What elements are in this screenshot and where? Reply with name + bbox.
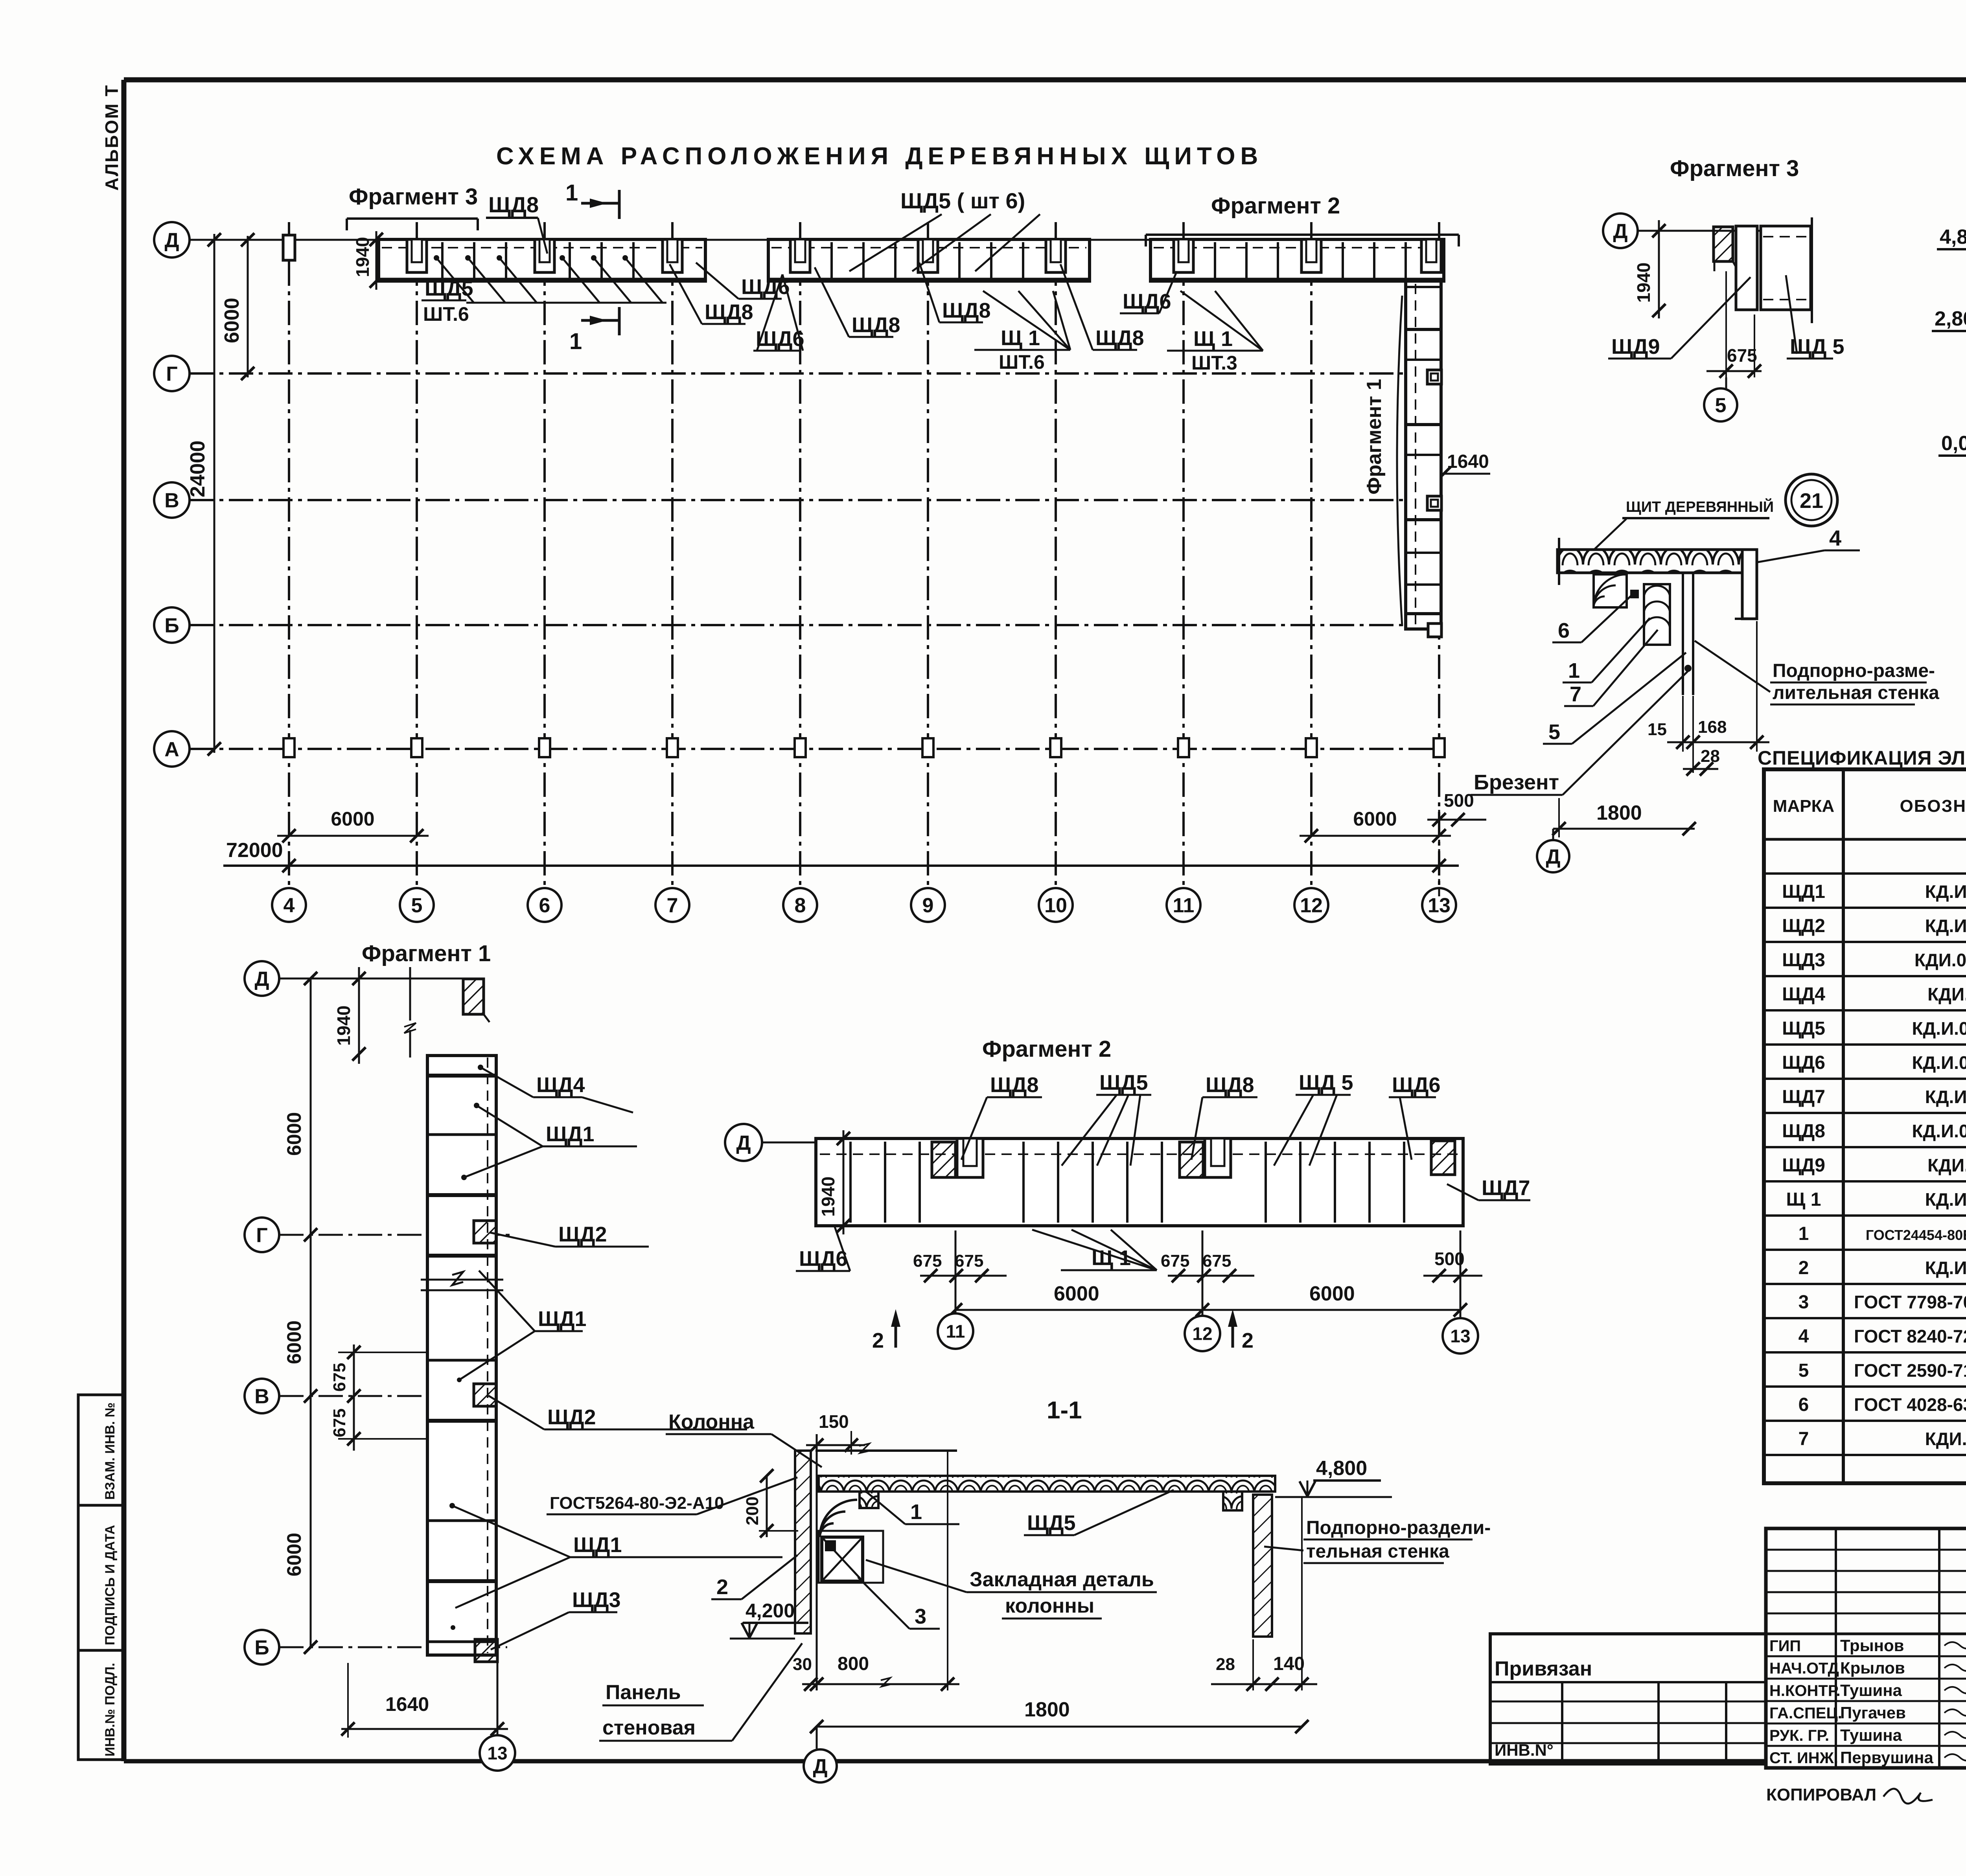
section 1-1 wood rings at column <box>820 1500 857 1537</box>
wood panel strip C (row Д cols 11-13) <box>1151 239 1444 281</box>
svg-text:6000: 6000 <box>331 808 374 830</box>
dim 1640 right vertical strip <box>1437 451 1490 480</box>
svg-text:Щ 1: Щ 1 <box>1092 1246 1131 1270</box>
fragment 1 dim 1640 <box>341 1663 508 1738</box>
svg-text:5: 5 <box>411 894 423 917</box>
svg-text:Фрагмент 1: Фрагмент 1 <box>362 941 491 966</box>
svg-text:1640: 1640 <box>385 1693 429 1715</box>
svg-text:ИНВ.N°: ИНВ.N° <box>1495 1741 1554 1759</box>
elevation 4,200 (1-1) <box>730 1600 808 1639</box>
section 1-1 bottom dims 30 800 <box>793 1451 959 1691</box>
svg-text:Тушина: Тушина <box>1840 1681 1902 1699</box>
svg-text:ЩД4: ЩД4 <box>1782 984 1825 1005</box>
fragment 2 label ЩД8 <box>961 1073 1042 1160</box>
svg-text:2: 2 <box>1798 1258 1809 1278</box>
svg-text:ЩД1: ЩД1 <box>1782 881 1825 902</box>
fragment 3 label ЩД9 <box>1608 277 1751 359</box>
detail title ЩИТ ДЕРЕВЯННЫЙ <box>1593 498 1774 550</box>
vertical plank with rings <box>1644 584 1670 645</box>
plan column axis 11 <box>1167 222 1200 922</box>
svg-text:Панель: Панель <box>606 1681 681 1704</box>
dim 1800 detail <box>1552 798 1696 837</box>
svg-text:ЩД8: ЩД8 <box>990 1073 1039 1097</box>
svg-text:ЩД2: ЩД2 <box>558 1223 607 1246</box>
svg-text:ЩД3: ЩД3 <box>1782 950 1825 971</box>
svg-text:ОБОЗНАЧЕНИЕ: ОБОЗНАЧЕНИЕ <box>1900 796 1966 816</box>
svg-text:Д: Д <box>813 1755 827 1778</box>
svg-text:6000: 6000 <box>283 1112 305 1156</box>
svg-text:6000: 6000 <box>283 1533 305 1576</box>
svg-text:4: 4 <box>1798 1326 1809 1347</box>
fragment 1 break mark <box>421 1272 503 1290</box>
fragment 2 column 13 symbol <box>1431 1141 1455 1175</box>
svg-text:6000: 6000 <box>221 298 243 343</box>
svg-text:ЩД5: ЩД5 <box>425 277 473 300</box>
svg-text:КД.И.08.00: КД.И.08.00 <box>1925 1258 1966 1278</box>
svg-text:тельная стенка: тельная стенка <box>1306 1541 1449 1562</box>
svg-text:6: 6 <box>1558 619 1570 642</box>
svg-text:11: 11 <box>946 1321 965 1342</box>
svg-text:2: 2 <box>716 1575 728 1599</box>
section 1-1 embedded plate <box>819 1531 883 1583</box>
svg-text:1-1: 1-1 <box>1047 1397 1082 1424</box>
fragment 1 node square row В <box>474 1384 496 1406</box>
svg-text:1: 1 <box>910 1500 922 1524</box>
fragment 2 section mark 2 right <box>1228 1309 1254 1352</box>
section 1-1 dim 1800 <box>810 1698 1309 1733</box>
svg-text:КД.И.07.00: КД.И.07.00 <box>1925 1087 1966 1107</box>
plan row axis А <box>154 731 1437 767</box>
svg-text:Б: Б <box>254 1637 269 1659</box>
fragment 2 dim 6000 right <box>1202 1282 1467 1317</box>
svg-text:6: 6 <box>539 894 550 917</box>
svg-text:2,800: 2,800 <box>1935 307 1966 330</box>
fragment 1 axis Д <box>245 961 474 996</box>
svg-text:5: 5 <box>1798 1360 1809 1381</box>
fragment 2 dim 500 <box>1423 1249 1482 1282</box>
svg-text:А: А <box>164 738 179 761</box>
svg-text:НАЧ.ОТД: НАЧ.ОТД <box>1769 1660 1839 1677</box>
label 2 (1-1) <box>711 1555 797 1599</box>
fragment 1 node square row Г <box>474 1221 496 1243</box>
svg-text:ЩД6: ЩД6 <box>741 275 790 299</box>
svg-text:ЩД8: ЩД8 <box>852 313 900 337</box>
section 1-1 dim 200 <box>743 1469 798 1538</box>
fragment 3 hatched column <box>1714 227 1738 271</box>
svg-text:В: В <box>254 1385 269 1408</box>
fragment 2 label ЩД5 <box>1062 1071 1151 1166</box>
svg-text:КД.И.02.00: КД.И.02.00 <box>1925 1189 1966 1210</box>
svg-text:ЩД6: ЩД6 <box>1392 1073 1441 1097</box>
fragment 3 column bubble 5 <box>1704 377 1737 421</box>
label Брезент <box>1471 670 1689 795</box>
fragment 2 axis bubble 13 <box>1443 1230 1478 1354</box>
section 1-1 right wall <box>1253 1495 1272 1637</box>
elevation 2,800 <box>1932 307 1966 348</box>
svg-text:21: 21 <box>1800 489 1823 513</box>
svg-text:4: 4 <box>283 894 295 917</box>
svg-text:675: 675 <box>1727 345 1757 366</box>
label 7 <box>1564 630 1658 706</box>
label ЩД8 right of strip A <box>670 264 753 324</box>
svg-text:КДИ.05.00: КДИ.05.00 <box>1927 1155 1966 1175</box>
svg-text:6000: 6000 <box>1054 1282 1099 1305</box>
svg-text:Фрагмент 3: Фрагмент 3 <box>1670 156 1799 181</box>
section mark 1 (bottom) <box>569 307 619 354</box>
svg-text:ГА.СПЕЦ.: ГА.СПЕЦ. <box>1769 1705 1842 1722</box>
fragment 1 label ЩД4 <box>478 1065 633 1113</box>
svg-text:ЩД5: ЩД5 <box>1027 1511 1076 1535</box>
title block outer <box>1766 1528 1966 1768</box>
label 1 <box>1563 618 1650 682</box>
fragment 1 dim 675 675 <box>330 1344 429 1451</box>
svg-text:28: 28 <box>1701 747 1720 766</box>
label Колонна <box>666 1411 822 1467</box>
svg-text:1: 1 <box>1568 659 1580 682</box>
svg-text:КДИ.05.00-01: КДИ.05.00-01 <box>1914 950 1966 970</box>
section 1-1 beam ЩД5 logs <box>819 1476 1275 1492</box>
elevation 0,000 <box>1938 432 1966 472</box>
svg-text:Д: Д <box>164 229 179 252</box>
channel bracket item 4 <box>1735 526 1860 619</box>
plan row axis Г <box>154 356 1439 391</box>
svg-text:12: 12 <box>1300 894 1323 917</box>
label 1 (1-1) <box>865 1491 959 1524</box>
svg-text:13: 13 <box>1450 1326 1470 1346</box>
label Щ1 шт.3 under strip C <box>1167 291 1263 374</box>
svg-text:Д: Д <box>736 1132 751 1155</box>
spec table grid <box>1764 769 1966 1483</box>
fragment 2 strip <box>816 1138 1463 1226</box>
svg-text:ШТ.6: ШТ.6 <box>999 351 1045 373</box>
svg-text:МАРКА: МАРКА <box>1773 796 1834 816</box>
fragment 1 axis В <box>245 1379 464 1413</box>
svg-text:СПЕЦИФИКАЦИЯ ЭЛЕМЕНТОВ К СХЕ: СПЕЦИФИКАЦИЯ ЭЛЕМЕНТОВ К СХЕМЕ РАСПОЛОЖЕ… <box>1758 747 1966 769</box>
svg-text:Б: Б <box>164 614 179 637</box>
svg-text:Первушина: Первушина <box>1840 1748 1934 1767</box>
label 6 <box>1552 594 1633 642</box>
fragment 2 section mark 2 left <box>872 1309 900 1352</box>
svg-text:ГОСТ 4028-63*: ГОСТ 4028-63* <box>1854 1394 1966 1415</box>
fragment 1 dim 1940 <box>333 967 366 1064</box>
svg-text:13: 13 <box>1428 894 1451 917</box>
title block signature rows <box>1766 1634 1966 1768</box>
label ЩД8 top <box>486 192 547 254</box>
svg-text:Фрагмент 3: Фрагмент 3 <box>349 184 478 210</box>
svg-text:Привязан: Привязан <box>1495 1657 1592 1680</box>
dim 6000 left vertical <box>221 233 254 380</box>
svg-text:28: 28 <box>1216 1655 1235 1674</box>
fragment 1 node square row Б <box>475 1639 497 1662</box>
plan column axis 6 <box>528 222 561 922</box>
dim 150 (1-1) <box>806 1411 865 1455</box>
plan column axis 4 <box>272 222 306 922</box>
svg-text:5: 5 <box>1715 394 1727 417</box>
svg-text:9: 9 <box>922 894 934 917</box>
label 3 (1-1) <box>858 1577 940 1629</box>
svg-text:675: 675 <box>955 1251 983 1271</box>
fragment 1 label ЩД2 upper <box>490 1223 649 1247</box>
svg-text:1640: 1640 <box>1447 451 1489 472</box>
svg-text:ГОСТ 8240-72*: ГОСТ 8240-72* <box>1854 1326 1966 1346</box>
fragment 2 dims 675 675 right <box>1161 1251 1254 1282</box>
label Фрагмент 3 with bracket <box>347 184 478 230</box>
svg-text:ЩД8: ЩД8 <box>705 300 753 324</box>
svg-text:6000: 6000 <box>1309 1282 1355 1305</box>
fragment 2 label ЩД6 left <box>796 1226 850 1271</box>
label ЩД5 (1-1) <box>1024 1490 1174 1535</box>
svg-text:2: 2 <box>872 1329 884 1352</box>
plan column axis 8 <box>783 222 817 922</box>
dim 72000 bottom overall <box>223 839 1459 872</box>
fragment 3 dim 675 <box>1706 271 1762 393</box>
svg-text:1800: 1800 <box>1596 802 1642 824</box>
fragment 1 axis Б <box>245 1630 507 1664</box>
section 1-1 wall cap log <box>1223 1492 1242 1510</box>
svg-text:13: 13 <box>487 1743 507 1764</box>
fragment 2 column 12 symbol <box>1180 1138 1231 1177</box>
fragment 1 label ГОСТ weld <box>547 1477 797 1514</box>
dim 500 right <box>1427 790 1486 896</box>
svg-text:КДИ. 09.00: КДИ. 09.00 <box>1925 1429 1966 1449</box>
svg-text:ЩД2: ЩД2 <box>547 1405 596 1429</box>
label Щ1 шт.6 under strip B <box>974 291 1070 373</box>
fragment 2 column 11 symbol <box>932 1138 983 1177</box>
svg-text:4,800: 4,800 <box>1316 1457 1367 1480</box>
svg-text:500: 500 <box>1444 790 1474 811</box>
svg-text:КД.И.04.00: КД.И.04.00 <box>1925 916 1966 936</box>
svg-text:ЩД7: ЩД7 <box>1482 1176 1530 1200</box>
svg-text:ЩД5 ( шт 6): ЩД5 ( шт 6) <box>900 188 1025 213</box>
fragment 2 label ЩД6 <box>1389 1073 1441 1160</box>
svg-text:ЩД8: ЩД8 <box>942 299 991 322</box>
wood panel strip A (row Д cols 5-7) <box>379 239 705 281</box>
fragment 3 label ЩД5 <box>1786 275 1845 359</box>
log beam (щит деревянный) <box>1557 538 1742 585</box>
svg-text:2: 2 <box>1242 1329 1254 1352</box>
svg-text:675: 675 <box>1161 1251 1189 1271</box>
section 1-1 dims 28 140 <box>1211 1498 1317 1691</box>
svg-text:1800: 1800 <box>1024 1698 1070 1721</box>
svg-text:ЩД8: ЩД8 <box>1782 1121 1825 1142</box>
fragment 1 label ЩД3 <box>451 1588 621 1650</box>
svg-text:Крылов: Крылов <box>1840 1659 1905 1677</box>
label 5 <box>1543 653 1686 744</box>
plan row axis Б <box>154 607 1439 643</box>
label ЩД5 шт.6 under strip A with leaders <box>422 255 666 325</box>
svg-text:Пугачев: Пугачев <box>1840 1703 1906 1722</box>
svg-text:ГОСТ 7798-70*: ГОСТ 7798-70* <box>1854 1292 1966 1312</box>
svg-text:ЩД 5: ЩД 5 <box>1790 335 1845 359</box>
svg-text:Закладная деталь: Закладная деталь <box>970 1568 1154 1591</box>
svg-text:Фрагмент 2: Фрагмент 2 <box>1211 193 1340 219</box>
svg-text:Д: Д <box>1613 220 1627 243</box>
right vertical panel strip (wall on line 13) <box>1406 281 1441 629</box>
svg-text:Щ 1: Щ 1 <box>1786 1189 1821 1210</box>
fragment 2 label ЩД8 second <box>1191 1073 1257 1160</box>
svg-text:Фрагмент 1: Фрагмент 1 <box>1363 379 1386 495</box>
fragment 2 axis bubble 11 <box>938 1230 973 1349</box>
fragment 2 axis Д <box>725 1124 818 1161</box>
svg-text:6000: 6000 <box>1353 808 1397 830</box>
svg-text:Подпорно-разме-: Подпорно-разме- <box>1773 660 1935 681</box>
node square row Г on wall 13 <box>1427 370 1441 384</box>
svg-text:4,800: 4,800 <box>1940 226 1966 248</box>
plan column axis 9 <box>911 222 945 922</box>
svg-text:150: 150 <box>819 1411 849 1432</box>
fragment 2 axis bubble 12 <box>1185 1230 1220 1351</box>
fragment 3 right edge line <box>1811 217 1813 323</box>
svg-text:3: 3 <box>915 1605 926 1628</box>
bolt black square <box>1630 590 1639 598</box>
svg-text:5: 5 <box>1548 720 1560 744</box>
wood panel strip B (row Д cols 8-10) <box>768 239 1090 281</box>
fragment 3 dim 1940 <box>1633 220 1666 318</box>
fragment 3 axis Д <box>1603 213 1813 248</box>
svg-text:КД.И.03.00: КД.И.03.00 <box>1925 881 1966 902</box>
svg-text:ШТ.3: ШТ.3 <box>1191 352 1237 374</box>
svg-text:ГИП: ГИП <box>1769 1637 1801 1655</box>
svg-text:1940: 1940 <box>818 1177 838 1217</box>
fragment 1 dim 6000 Д-Г <box>283 972 317 1241</box>
left margin stamp boxes <box>78 1395 124 1760</box>
svg-text:КОПИРОВАЛ: КОПИРОВАЛ <box>1766 1785 1876 1804</box>
dim 1940 strip A vertical <box>352 231 383 290</box>
svg-text:В: В <box>164 489 179 512</box>
fragment 1 top hatched column <box>463 979 490 1022</box>
label Фрагмент 2 with bracket <box>1146 193 1459 246</box>
dim 6000 bottom cols 12-13 <box>1300 808 1451 842</box>
fragment 1 axis Г <box>245 1218 515 1252</box>
svg-text:7: 7 <box>1570 682 1581 706</box>
svg-text:6: 6 <box>1798 1394 1809 1415</box>
section mark 1 (top) <box>565 180 619 219</box>
label ЩД6 left of strip C <box>1120 271 1177 313</box>
node square bottom on wall 13 <box>1428 623 1441 637</box>
svg-text:СТ. ИНЖ.: СТ. ИНЖ. <box>1769 1749 1838 1767</box>
svg-text:КД.И.03.00-01: КД.И.03.00-01 <box>1912 1018 1966 1039</box>
svg-text:стеновая: стеновая <box>602 1716 696 1739</box>
label ЩД8 strip B right <box>1060 264 1144 350</box>
dims 15 168 28 <box>1648 621 1769 776</box>
label Подпорно-разделительная стенка (1-1) <box>1264 1517 1491 1563</box>
svg-text:Г: Г <box>256 1224 267 1247</box>
svg-text:4: 4 <box>1829 526 1841 550</box>
svg-text:Брезент: Брезент <box>1474 771 1559 794</box>
svg-text:ПОДПИСЬ И ДАТА: ПОДПИСЬ И ДАТА <box>103 1525 118 1645</box>
plan column axis 12 <box>1294 222 1328 922</box>
fragment 1 scope bracket <box>1397 296 1402 626</box>
svg-text:Н.КОНТР.: Н.КОНТР. <box>1769 1682 1841 1699</box>
svg-text:1: 1 <box>1798 1223 1809 1244</box>
fragment 2 label ЩД7 <box>1447 1176 1530 1200</box>
svg-text:Подпорно-раздели-: Подпорно-раздели- <box>1306 1517 1491 1538</box>
svg-text:Д: Д <box>1546 846 1560 868</box>
svg-text:24000: 24000 <box>186 440 209 497</box>
dim 24000 vertical <box>186 233 221 756</box>
svg-text:200: 200 <box>743 1497 762 1525</box>
svg-text:ЩД5: ЩД5 <box>1782 1018 1825 1039</box>
svg-text:1940: 1940 <box>333 1006 354 1046</box>
svg-text:1: 1 <box>565 180 578 206</box>
spec table header texts <box>1773 787 1966 825</box>
plan column stubs row А <box>283 738 1445 757</box>
plan column axis 7 <box>655 222 689 922</box>
svg-text:8: 8 <box>795 894 806 917</box>
svg-text:675: 675 <box>1202 1251 1231 1271</box>
label ЩД6 flag left of strip B <box>753 274 804 351</box>
label ЩД5 (шт 6) <box>849 188 1040 271</box>
svg-text:15: 15 <box>1648 720 1667 739</box>
section 1-1 top break line <box>815 1444 957 1453</box>
svg-text:КД.И.06.00-01: КД.И.06.00-01 <box>1912 1052 1966 1073</box>
svg-text:КДИ.06.00: КДИ.06.00 <box>1927 984 1966 1004</box>
fragment 1 label ЩД1 lower <box>449 1503 782 1608</box>
svg-text:1940: 1940 <box>352 237 373 277</box>
svg-text:ЩД8: ЩД8 <box>488 192 539 217</box>
svg-text:1940: 1940 <box>1633 263 1654 303</box>
svg-text:Трынов: Трынов <box>1840 1636 1904 1655</box>
title block mini table (изм/лист) <box>1766 1528 1966 1768</box>
corner column at col 13 <box>1421 239 1441 272</box>
svg-text:ЩД9: ЩД9 <box>1782 1155 1825 1176</box>
fragment 2 label Щ1 <box>1032 1230 1157 1270</box>
svg-text:ЩД8: ЩД8 <box>1206 1073 1254 1097</box>
svg-text:140: 140 <box>1273 1653 1305 1674</box>
svg-text:ГОСТ24454-80Е,ГОСТ8486-66**: ГОСТ24454-80Е,ГОСТ8486-66** <box>1866 1227 1966 1243</box>
svg-text:Колонна: Колонна <box>668 1411 755 1433</box>
fragment 2 dim 1940 <box>818 1130 850 1234</box>
fragment 1 label ЩД1 upper <box>461 1103 637 1180</box>
plan column axis 10 <box>1039 222 1073 922</box>
svg-text:1: 1 <box>569 329 582 354</box>
svg-text:ЩД5: ЩД5 <box>1099 1071 1148 1094</box>
привязан box <box>1490 1634 1766 1764</box>
svg-text:7: 7 <box>1798 1429 1809 1449</box>
elevation 4,800 (1-1) <box>1275 1457 1392 1497</box>
svg-text:3: 3 <box>1798 1292 1809 1313</box>
svg-text:ГОСТ5264-80-Э2-А10: ГОСТ5264-80-Э2-А10 <box>550 1493 724 1513</box>
label ЩД6 right of strip A <box>696 263 790 299</box>
quarter log piece <box>1594 574 1627 607</box>
svg-text:ЩД 5: ЩД 5 <box>1299 1071 1353 1094</box>
svg-text:0,000: 0,000 <box>1941 432 1966 455</box>
svg-text:ГОСТ 2590-71*: ГОСТ 2590-71* <box>1854 1360 1966 1381</box>
plan row axis Д <box>154 222 1437 257</box>
svg-text:7: 7 <box>667 894 678 917</box>
копировал / формат <box>1766 1785 1966 1804</box>
fragment 3 panel ЩД9 <box>1736 226 1757 310</box>
svg-text:ЩД2: ЩД2 <box>1782 916 1825 936</box>
label Подпорно-размелительная стенка <box>1695 641 1939 704</box>
section 1-1 column face line <box>816 1434 818 1690</box>
fragment 1 dim 6000 В-Б <box>283 1396 317 1654</box>
node square row В on wall 13 <box>1427 496 1441 510</box>
svg-text:СХЕМА РАСПОЛОЖЕНИЯ ДЕРЕВЯН: СХЕМА РАСПОЛОЖЕНИЯ ДЕРЕВЯННЫХ ЩИТОВ <box>496 143 1263 170</box>
svg-text:675: 675 <box>913 1251 942 1271</box>
svg-text:ЩД1: ЩД1 <box>546 1122 595 1146</box>
svg-text:Г: Г <box>166 363 177 386</box>
fragment 1 dim 6000 Г-В <box>283 1235 317 1403</box>
svg-text:Тушина: Тушина <box>1840 1726 1902 1744</box>
svg-text:ЩД1: ЩД1 <box>573 1533 622 1557</box>
plan row axis В <box>154 482 1439 518</box>
svg-text:РУК. ГР.: РУК. ГР. <box>1769 1727 1829 1744</box>
fragment 1 label ЩД2 lower <box>488 1396 747 1429</box>
axis bubble Д detail <box>1537 829 1569 872</box>
svg-text:колонны: колонны <box>1005 1595 1094 1617</box>
fragment 2 label ЩД5 second <box>1274 1071 1353 1166</box>
